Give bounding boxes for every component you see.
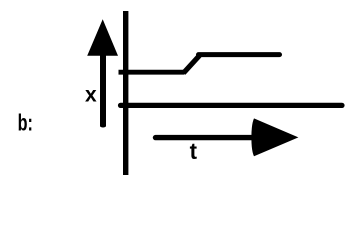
t arrow shaft <box>156 135 263 140</box>
x-axis vertical line <box>123 11 128 175</box>
signal trace: high level segment <box>199 52 280 57</box>
long horizontal baseline <box>121 103 343 108</box>
svg-text:x: x <box>85 84 97 107</box>
signal trace: low level segment <box>119 70 185 75</box>
up arrow (x axis) head <box>87 19 118 55</box>
t arrow head <box>251 118 298 156</box>
up arrow (x axis) shaft <box>100 52 106 128</box>
svg-text:t: t <box>190 138 198 164</box>
svg-text:b:: b: <box>18 110 33 136</box>
signal trace: rising ramp <box>184 56 200 74</box>
